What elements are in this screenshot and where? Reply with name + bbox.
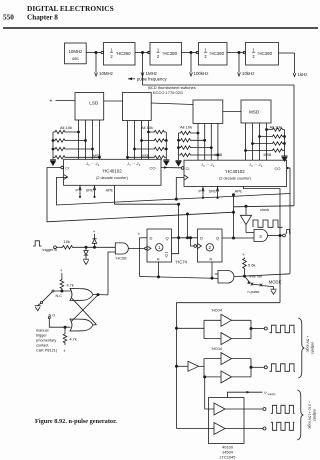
svg-text:LTC1045: LTC1045 (220, 455, 236, 460)
svg-text:Q: Q (166, 236, 169, 241)
svg-text:ECCO 1776 02G: ECCO 1776 02G (153, 90, 183, 95)
waveform shifted Q (271, 405, 295, 413)
terminal shifted Q (263, 408, 266, 411)
node CLK U6 tap (175, 198, 177, 200)
svg-text:SPE: SPE (209, 190, 217, 194)
wire pulse frequency bus (143, 85, 295, 206)
inverter U12d (221, 353, 232, 365)
inverter U13a (214, 403, 225, 415)
svg-text:trigger: trigger (36, 334, 47, 338)
svg-text:Q: Q (216, 236, 219, 241)
switch contact free run (251, 283, 254, 286)
diode D1 to ground (84, 247, 88, 258)
wire FF1 Q to FF2 D (172, 237, 198, 239)
BCD column wires group 4 (246, 123, 267, 160)
svg-text:LSD: LSD (89, 101, 99, 106)
wire CLK U5 from FF2 Q line (57, 177, 291, 205)
pin CLK U5 (64, 174, 68, 179)
svg-text:2: 2 (204, 54, 207, 59)
svg-text:MSD: MSD (249, 110, 260, 115)
svg-text:+: + (138, 232, 141, 237)
terminal output Qbar (264, 366, 267, 369)
svg-text:1: 1 (158, 245, 161, 250)
svg-text:4: 4 (261, 164, 263, 168)
node buffer pair1 tap (175, 327, 177, 329)
wire U7 output to FF1 clk (128, 247, 144, 249)
SECTION: clock gating (215, 205, 294, 294)
svg-text:CI: CI (65, 166, 69, 171)
switch contact n pulse (260, 284, 263, 287)
svg-text:1: 1 (157, 48, 160, 53)
svg-text:+: + (60, 268, 63, 273)
svg-text:4.7k: 4.7k (67, 284, 74, 288)
svg-text:10k: 10k (64, 239, 70, 244)
waveform output Qbar (270, 364, 296, 372)
node diode clamp upper (93, 246, 95, 248)
svg-text:CO: CO (275, 166, 281, 171)
wire U1 to U2 (135, 52, 149, 54)
svg-text:4: 4 (98, 163, 100, 167)
wire U3 to U4 (227, 52, 244, 54)
svg-text:(2 decade counter): (2 decade counter) (219, 177, 252, 181)
wire NC to gate5 (54, 290, 71, 292)
svg-text:Q: Q (165, 253, 168, 258)
svg-text:− 3 to +15V logic: − 3 to +15V logic (308, 401, 312, 430)
gate U11b NAND latch lower (70, 319, 93, 331)
svg-text:10MHz: 10MHz (99, 71, 113, 76)
svg-text:10MHz: 10MHz (68, 49, 82, 54)
inverter U8 clock buffer (240, 206, 254, 232)
svg-text:'HC40102: 'HC40102 (102, 169, 122, 174)
wire APE U5 from FF1 Qbar (106, 185, 178, 204)
ground D1 (83, 259, 89, 264)
wire FF1 R stub (157, 262, 159, 278)
inverter U12e (221, 371, 232, 383)
ground mode switch (271, 287, 277, 295)
svg-text:'HC08: 'HC08 (116, 256, 128, 261)
oscillator 10MHz box (65, 43, 87, 64)
wire FF2 Q up to counter enable (232, 194, 234, 238)
divider U4 'HC390 (243, 43, 278, 66)
ground RN3 (176, 160, 182, 165)
SECTION: trigger + flip-flops (33, 194, 254, 280)
wire FF2 R stub (211, 262, 213, 279)
wire latch output (93, 294, 108, 296)
divider U2 'HC390 (148, 43, 182, 66)
svg-text:'HC04: 'HC04 (211, 346, 223, 351)
svg-text:Figure 8.92. n-pulse generato: Figure 8.92. n-pulse generator. (35, 418, 117, 425)
svg-text:MSB: MSB (264, 153, 272, 157)
svg-text:+: + (93, 229, 96, 234)
svg-text:10kHz: 10kHz (242, 71, 254, 76)
pin P U5 stub (76, 185, 82, 197)
wire gate4 output to mode switch (234, 274, 290, 277)
svg-text:···: ··· (91, 161, 94, 165)
header rule (3, 27, 318, 29)
counter U6 'HC40102 (181, 160, 286, 186)
inverter U12c (188, 361, 199, 371)
svg-text:All 10k: All 10k (141, 125, 153, 130)
svg-text:CI: CI (186, 166, 190, 171)
svg-text:2: 2 (209, 245, 212, 250)
svg-text:5.6k: 5.6k (248, 263, 256, 268)
node 100kHz tap (190, 51, 192, 53)
svg-text:MSB: MSB (215, 153, 223, 157)
wire 1MHz tap down to pulse-frequency bus (141, 53, 144, 86)
svg-text:D: D (200, 236, 203, 241)
resistor network RN1 All 10k (52, 125, 101, 160)
svg-text:clock: clock (260, 207, 269, 212)
wire 100kHz tap (190, 53, 193, 77)
svg-text:···: ··· (132, 161, 135, 165)
wire SW2 to SW3 (151, 103, 193, 105)
node 10kHz tap (238, 51, 240, 53)
svg-text:All 10k: All 10k (270, 125, 282, 130)
ground RN2 (163, 160, 169, 165)
svg-text:C&K P8121): C&K P8121) (36, 349, 58, 353)
wire 1kHz output (279, 53, 296, 77)
svg-text:outputs: outputs (313, 409, 317, 422)
svg-text:MSB: MSB (93, 154, 101, 158)
inverter U13b (214, 423, 225, 435)
clock waveform annotation (253, 220, 283, 227)
pin CI U6 (181, 167, 184, 170)
resistor R4 4.7k pullup NC (60, 268, 74, 290)
buffer pair2 input bus (199, 359, 222, 377)
pulse frequency annotation arrow (128, 77, 135, 80)
svg-text:···: ··· (254, 162, 257, 166)
wire CO U6 to mode switch (287, 167, 290, 274)
wire + to LSD (56, 100, 76, 102)
wire FF1 D stub (140, 237, 148, 239)
label +5V logic outputs (rotated) (306, 336, 315, 355)
svg-text:P: P (199, 190, 202, 194)
thumbwheel switch SW4 MSD (241, 100, 271, 123)
flip-flop FF1 'HC74 (147, 229, 172, 262)
label Vsupply (264, 390, 276, 396)
svg-text:n pulse: n pulse (248, 290, 260, 294)
counter U5 'HC40102 (61, 159, 161, 185)
svg-text:APE: APE (235, 190, 243, 194)
switch arm manual trigger (42, 292, 52, 302)
wire latch to gate U7 input (108, 252, 115, 295)
svg-text:CO: CO (150, 166, 156, 171)
label -3 to +15V logic outputs (rotated) (308, 401, 317, 430)
svg-text:R: R (157, 258, 160, 262)
wire reset line to gate4 (140, 277, 219, 279)
node FF2 clk bubble (194, 245, 197, 248)
switch arm lower (253, 283, 259, 286)
wire Vsupply (228, 391, 263, 398)
svg-text:1MHz: 1MHz (146, 71, 157, 76)
SECTION: counters (47, 159, 290, 302)
terminal shifted Qbar (263, 427, 266, 430)
svg-text:free run: free run (250, 275, 263, 279)
svg-text:MSB: MSB (142, 154, 150, 158)
svg-text:+: + (50, 99, 53, 105)
switch common (40, 301, 42, 303)
wire CLK U6 (176, 178, 184, 200)
buffer pair2 output bus (232, 359, 265, 377)
svg-text:2: 2 (252, 54, 255, 59)
buffer pair1 output bus (232, 320, 265, 338)
wire R2 to gate U7a (74, 246, 115, 248)
SECTION: output buffers (175, 303, 316, 460)
pin SPE U5 stub (86, 185, 96, 197)
svg-text:SPE: SPE (86, 189, 94, 193)
wire FF1 D node down to reset line (139, 238, 141, 277)
inverter U12c input (177, 365, 189, 367)
ground manual switch (35, 303, 41, 311)
divider U1 'HC390 (101, 43, 135, 66)
switch contact NO (48, 317, 50, 319)
wire output shifted Qbar (225, 428, 263, 430)
header: book title (3, 4, 114, 22)
wire CO U5 to CI U6 (161, 166, 181, 169)
svg-text:D: D (150, 236, 153, 241)
trigger input pulse symbol (33, 241, 42, 246)
svg-text:R: R (210, 258, 213, 262)
terminal trigger in (54, 246, 57, 249)
svg-text:2: 2 (110, 54, 113, 59)
resistor network RN3 All 10k (178, 125, 219, 161)
wire CI U5 from clock inverter line (47, 168, 234, 222)
svg-text:All 10k: All 10k (180, 125, 192, 130)
wire latch cross couple 2 (72, 298, 97, 325)
node diode clamp lower (85, 246, 87, 248)
wire output shifted Q (225, 408, 263, 410)
thumbwheel switch SW3 (193, 100, 223, 123)
svg-text:2: 2 (157, 54, 160, 59)
resistor network RN2 All 10k (127, 125, 168, 160)
svg-text:+ 5V logic: + 5V logic (306, 336, 310, 353)
pin CLK U6 (184, 175, 188, 180)
wire U2 to U3 (182, 52, 198, 54)
node NO junction (64, 326, 66, 328)
svg-text:'HC390: 'HC390 (258, 51, 273, 56)
gate U9 AND gate 3 (254, 230, 268, 242)
wire FF2 Q to gate3 (222, 237, 254, 239)
resistor R3 5.6k pullup (242, 252, 255, 275)
svg-text:outputs: outputs (311, 342, 315, 355)
wire clock line H4 (234, 206, 295, 207)
wire switch to ground (262, 286, 273, 287)
svg-text:1: 1 (252, 48, 255, 53)
buffer pair1 input bus (177, 320, 222, 338)
svg-text:(momentary: (momentary (36, 339, 56, 343)
gate U10 AND gate 4 (218, 271, 234, 284)
svg-text:···: ··· (206, 162, 209, 166)
svg-text:1: 1 (110, 48, 113, 53)
svg-text:DIGITAL ELECTRONICS: DIGITAL ELECTRONICS (27, 4, 114, 13)
brace +5V outputs (298, 318, 304, 378)
node 1MHz tap (141, 51, 143, 53)
svg-text:APE: APE (106, 189, 114, 193)
svg-text:100kHz: 100kHz (194, 71, 209, 76)
wire latch cross couple 1 (72, 295, 98, 321)
terminal output Q (264, 327, 267, 330)
SECTION: thumbwheel switches (50, 85, 288, 166)
pin CI U5 (61, 166, 64, 169)
diode D2 to +5V (92, 229, 96, 247)
svg-text:pulse frequency: pulse frequency (137, 77, 167, 82)
svg-text:'HC390: 'HC390 (210, 51, 225, 56)
wire level shifter input A (205, 377, 214, 409)
terminal n-pulse output (280, 234, 285, 237)
resistor R5 4.7k NO (63, 327, 77, 353)
svg-text:MODE: MODE (269, 280, 282, 285)
wire trigger to R2 (56, 246, 61, 248)
gate U7 'HC08 AND (115, 243, 128, 261)
level shifter U13 box (209, 398, 245, 444)
svg-text:4.7k: 4.7k (70, 338, 77, 342)
wire NO to gate6 (49, 319, 70, 328)
n-pulse glyph (286, 229, 291, 233)
svg-text:'HC74: 'HC74 (176, 260, 188, 265)
node FF feedback to enable line (186, 213, 188, 239)
svg-text:1: 1 (204, 48, 207, 53)
pin P U6 stub (199, 186, 205, 198)
BCD column wires group 2 (128, 121, 149, 160)
resistor network RN4 All 10k (245, 125, 286, 156)
waveform output Q (270, 325, 296, 333)
thumbwheel switch SW1 LSD (75, 93, 104, 121)
wire SW1 to SW2 (104, 100, 123, 102)
svg-text:Chapter 8: Chapter 8 (27, 14, 58, 22)
svg-text:'HC04: 'HC04 (211, 308, 223, 313)
svg-text:4: 4 (139, 163, 141, 167)
svg-text:'HC390: 'HC390 (116, 51, 131, 56)
SECTION: top oscillator/divider chain (65, 43, 308, 206)
resistor R2 10k (61, 239, 74, 249)
svg-text:(2 decade counter): (2 decade counter) (96, 176, 129, 180)
waveform shifted Qbar (271, 422, 295, 430)
wire gate4 input stub (215, 273, 218, 275)
brace -3 to +15V outputs (297, 390, 303, 440)
svg-text:+: + (63, 349, 66, 354)
node NC junction (61, 290, 63, 292)
wire gate3 output down to buffer rail (177, 303, 281, 429)
node 10MHz tap (95, 51, 97, 53)
wire gate3 output to APE line (268, 234, 282, 236)
wire 10MHz tap (95, 53, 98, 77)
svg-text:550: 550 (3, 14, 14, 22)
gate U11a NAND latch upper (70, 289, 93, 301)
svg-text:osc: osc (72, 56, 80, 61)
node clock inverter input (245, 205, 247, 207)
svg-text:'HC390: 'HC390 (163, 51, 178, 56)
svg-text:'HC40102: 'HC40102 (225, 169, 245, 174)
ground RN4 (282, 156, 288, 161)
svg-text:P: P (76, 189, 79, 193)
svg-text:V: V (264, 390, 267, 395)
node buffer pair2 tap (175, 365, 177, 367)
wire osc to U1 (86, 52, 101, 54)
wire FF2 clk from Q wire (189, 237, 194, 246)
svg-text:3: 3 (259, 234, 262, 239)
thumbwheel switch SW2 (123, 93, 152, 121)
node level shifter tap (204, 376, 206, 378)
switch contact NC (52, 290, 54, 292)
svg-text:manual: manual (36, 329, 49, 333)
svg-text:1kHz: 1kHz (298, 72, 308, 77)
label 40109 14504 LTC1045 (220, 445, 236, 460)
svg-text:contact,: contact, (36, 344, 49, 348)
wire level shifter input B (177, 428, 215, 430)
inverter U12a (221, 314, 232, 326)
svg-text:supply: supply (268, 392, 277, 396)
node FF1 clk bubble (145, 247, 148, 250)
wire SW3 to SW4 (223, 111, 241, 113)
ground RN1 (50, 160, 56, 165)
svg-text:All 10k: All 10k (60, 125, 72, 130)
flip-flop FF2 'HC74 (198, 229, 223, 262)
svg-text:+: + (242, 252, 245, 257)
wire 10kHz tap (238, 53, 241, 77)
svg-text:N.C: N.C (56, 294, 63, 298)
SECTION: debounce latch (35, 252, 116, 354)
label manual trigger (36, 329, 58, 353)
wire FF1 Qbar feedback up to APE line (172, 203, 180, 254)
divider U3 'HC390 (196, 43, 227, 66)
pin SPE U6 stub (209, 186, 219, 198)
mode switch arm (245, 276, 251, 283)
BCD column wires group 1 (79, 120, 100, 159)
BCD column wires group 3 (198, 123, 218, 160)
svg-text:4: 4 (213, 164, 215, 168)
inverter U12b (221, 333, 232, 345)
wire APE U6 to gate3 output line (235, 186, 280, 302)
